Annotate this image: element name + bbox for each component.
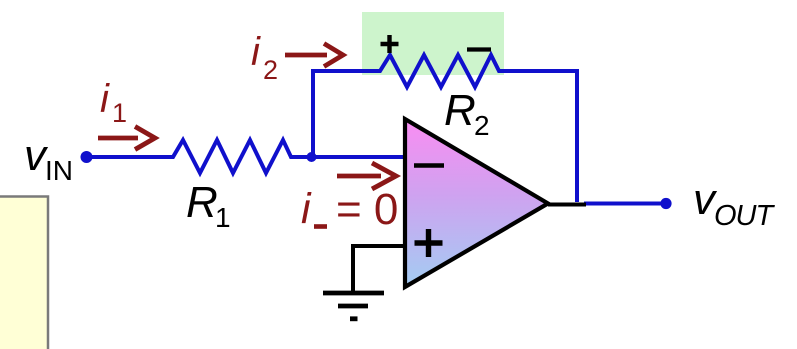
svg-text:IN: IN [45,155,73,186]
svg-text:1: 1 [112,98,127,128]
svg-text:2: 2 [263,55,278,85]
svg-text:2: 2 [474,110,490,141]
svg-text:i: i [100,77,110,121]
svg-text:i: i [251,30,261,74]
svg-text:1: 1 [215,202,231,233]
svg-text:R: R [444,86,476,135]
svg-text:i: i [301,185,312,233]
svg-text:= 0: = 0 [336,185,398,234]
svg-text:R: R [186,178,218,227]
svg-text:OUT: OUT [714,200,776,232]
